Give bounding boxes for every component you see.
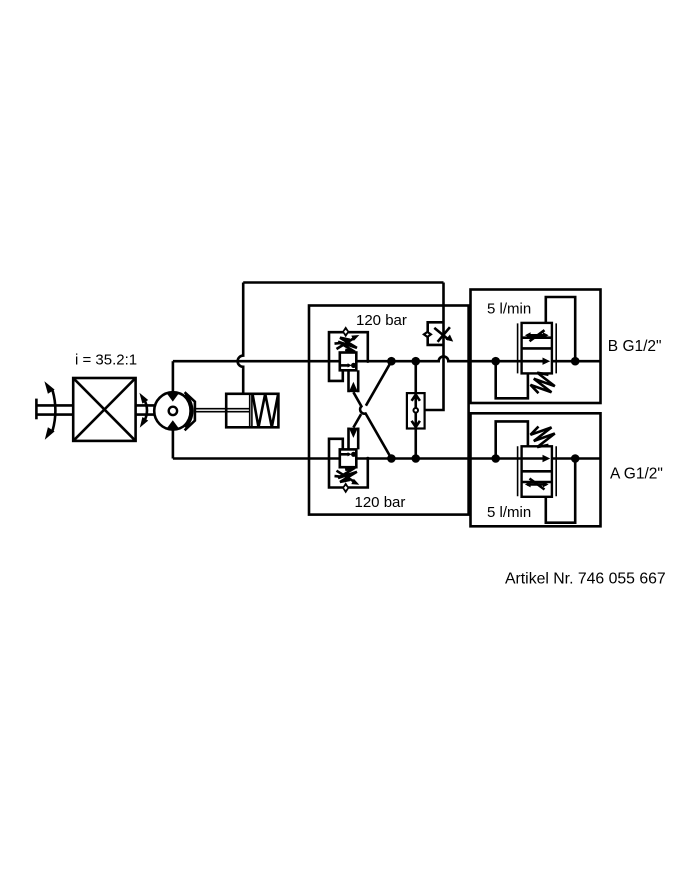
wire: main A line from pump to port A	[173, 457, 601, 460]
wire: pump bottom vertical	[172, 429, 175, 458]
crossover line RV1 outlet to A-dot (with hop)	[353, 392, 391, 458]
junction dot A1	[387, 454, 396, 463]
wire: pump top vertical	[172, 361, 175, 392]
wire: main B line from pump to port B	[173, 356, 601, 361]
control block outline	[309, 306, 469, 515]
svg-text:5 l/min: 5 l/min	[487, 301, 531, 318]
shaft input with end cap	[36, 399, 73, 420]
flow control valve FC1 (top, 5 l/min)	[491, 297, 579, 398]
relief valve RV2 (bottom, 120 bar, mirrored)	[329, 428, 369, 494]
coupling crescent and bracket	[185, 392, 195, 430]
pump circle	[154, 392, 191, 429]
relief valve RV1 (top, 120 bar)	[329, 326, 369, 392]
svg-text:Artikel Nr. 746 055 667: Artikel Nr. 746 055 667	[505, 570, 666, 587]
valve enclosure box A (bottom right)	[471, 413, 601, 526]
cylinder with spring return	[226, 394, 278, 428]
rotation arrow left	[44, 381, 55, 440]
junction dot A2	[411, 454, 420, 463]
wire: pilot drop to throttle valve and over to shuttle orifice	[418, 283, 444, 411]
junction dot B1	[387, 357, 396, 366]
valve enclosure box B (top right)	[471, 290, 601, 404]
svg-text:B G1/2": B G1/2"	[608, 338, 662, 355]
wire: pilot drop to cylinder with crossover hop	[238, 283, 244, 394]
svg-text:i = 35.2:1: i = 35.2:1	[75, 352, 137, 369]
shaft gearbox to pump	[136, 405, 155, 414]
svg-text:5 l/min: 5 l/min	[487, 504, 531, 521]
junction dot B2	[411, 357, 420, 366]
svg-text:A G1/2": A G1/2"	[610, 466, 663, 483]
wire: top pilot line horizontal	[243, 281, 443, 284]
flow control valve FC2 (bottom, 5 l/min, mirrored)	[491, 421, 579, 522]
svg-text:120 bar: 120 bar	[356, 312, 407, 329]
piston rod	[195, 409, 250, 412]
throttle check valve	[422, 322, 453, 345]
crossover line B-dot to RV2 inlet (with gap at crossing)	[353, 361, 391, 427]
gearbox i = 35.2:1	[73, 378, 135, 441]
svg-text:120 bar: 120 bar	[355, 494, 406, 511]
rotation arrow right	[139, 393, 148, 428]
shuttle orifice component between B and A	[407, 361, 425, 458]
